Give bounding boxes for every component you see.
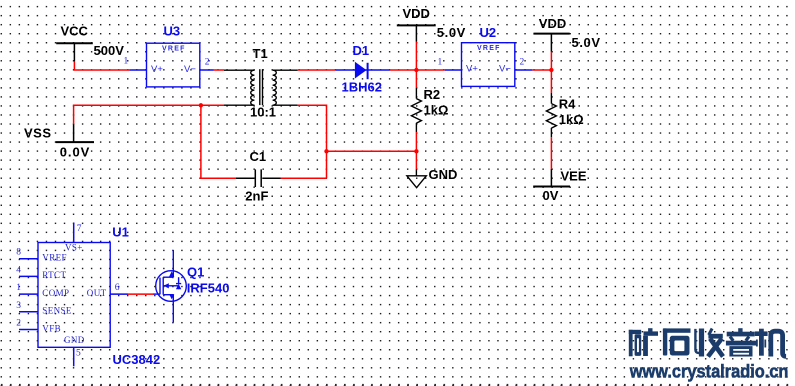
- svg-text:V+: V+: [466, 64, 478, 75]
- junction bottom rail / C1 branch: [199, 103, 203, 107]
- svg-text:VSS: VSS: [24, 125, 52, 140]
- IC U1 box: [38, 243, 110, 348]
- svg-text:1BH62: 1BH62: [342, 80, 382, 95]
- svg-text:U1: U1: [112, 225, 129, 240]
- svg-text:VDD: VDD: [403, 6, 430, 21]
- junction at VDD/R2 column: [414, 68, 418, 72]
- wire VCC to U3 pin1 (red): [74, 62, 129, 70]
- svg-text:U2: U2: [480, 25, 497, 40]
- U1 pin5 lead: [73, 347, 75, 366]
- svg-text:V−: V−: [184, 64, 196, 75]
- U1 pin4 stub: [19, 275, 38, 277]
- wire VEE lead black: [550, 169, 552, 187]
- transistor Q1: [153, 250, 186, 323]
- svg-text:2: 2: [16, 319, 21, 329]
- power VSS: [56, 141, 94, 143]
- svg-text:5.0V: 5.0V: [437, 25, 466, 40]
- wire VSS riser black: [73, 124, 75, 142]
- svg-text:RTCT: RTCT: [42, 270, 66, 280]
- power VEE: [533, 186, 570, 188]
- svg-text:COMP: COMP: [42, 288, 69, 298]
- char kuang: [629, 328, 658, 356]
- op U2 pin2 stub: [515, 69, 533, 71]
- svg-text:VEE: VEE: [561, 168, 587, 183]
- svg-text:U3: U3: [164, 23, 181, 38]
- wire T1 to D1 (red): [298, 69, 336, 71]
- wire VDD riser black: [415, 25, 417, 41]
- svg-text:UC3842: UC3842: [113, 352, 161, 367]
- wire U2 to VDD junction (red): [532, 69, 551, 71]
- wire R2 to GND (red): [415, 132, 417, 169]
- char shou: [695, 329, 723, 357]
- svg-text:R2: R2: [424, 87, 441, 102]
- svg-text:0.0V: 0.0V: [60, 144, 90, 159]
- svg-text:1kΩ: 1kΩ: [424, 103, 449, 118]
- wire VDD-R riser black: [550, 34, 552, 52]
- svg-text:500V: 500V: [94, 43, 125, 58]
- wire junction to R2 (red): [415, 70, 417, 88]
- svg-text:4: 4: [16, 265, 21, 275]
- diode D1: [336, 62, 390, 79]
- ground symbol: [407, 169, 426, 188]
- junction on C1 right branch: [324, 149, 328, 153]
- svg-text:SENSE: SENSE: [42, 306, 72, 316]
- svg-text:VDD: VDD: [539, 16, 566, 31]
- op U2 pin1 stub: [445, 69, 462, 71]
- char yin: [726, 328, 756, 356]
- svg-text:3: 3: [16, 301, 21, 311]
- op-amp U2 box: [462, 43, 515, 87]
- svg-text:VFB: VFB: [42, 323, 61, 333]
- svg-text:C1: C1: [250, 149, 267, 164]
- svg-text:OUT: OUT: [87, 288, 107, 298]
- junction at VDD-R/R4 column: [549, 68, 553, 72]
- svg-text:10:1: 10:1: [250, 105, 276, 120]
- svg-text:GND: GND: [64, 335, 85, 345]
- power VCC: [56, 42, 93, 44]
- U1 pin3 stub: [19, 311, 38, 313]
- capacitor C1: [236, 169, 281, 187]
- op-amp U3 box: [147, 43, 200, 87]
- wire VDD-R riser red: [550, 52, 552, 70]
- svg-text:R4: R4: [559, 97, 576, 112]
- svg-text:7: 7: [77, 224, 82, 234]
- wire C1 left branch (red): [201, 105, 236, 178]
- wire VDD riser red: [415, 42, 417, 71]
- wire tap C1 to R2 (red): [327, 150, 417, 152]
- junction R2/C1 tap: [414, 149, 418, 153]
- svg-text:T1: T1: [253, 46, 268, 61]
- wire VCC riser (black part): [73, 43, 75, 61]
- char shi: [663, 328, 691, 355]
- svg-text:GND: GND: [429, 167, 458, 182]
- U1 pin7 lead: [73, 223, 75, 243]
- svg-text:6: 6: [115, 283, 120, 293]
- U1 pin2 stub: [19, 329, 38, 331]
- svg-text:1: 1: [16, 283, 21, 293]
- U1 pin6 stub: [110, 293, 128, 295]
- svg-text:2: 2: [520, 57, 525, 67]
- power VDD (left): [397, 24, 436, 26]
- wire U3 to T1 (red): [214, 69, 225, 71]
- resistor R4: [546, 93, 556, 137]
- svg-text:D1: D1: [353, 43, 370, 58]
- svg-text:www.crystalradio.cn: www.crystalradio.cn: [629, 362, 789, 382]
- transformer T1: [224, 69, 298, 105]
- svg-text:5.0V: 5.0V: [572, 35, 601, 50]
- svg-text:0V: 0V: [543, 188, 559, 203]
- wire junction to R4 (red): [550, 70, 552, 93]
- svg-text:2nF: 2nF: [245, 188, 268, 203]
- svg-text:VS+: VS+: [65, 242, 83, 252]
- svg-text:5: 5: [76, 349, 81, 359]
- svg-text:2: 2: [205, 58, 210, 68]
- svg-text:VREF: VREF: [162, 46, 185, 53]
- svg-text:1kΩ: 1kΩ: [559, 112, 584, 127]
- resistor R2: [411, 88, 421, 132]
- wire D1 to junction (red): [390, 69, 445, 71]
- op U3 pin1 stub: [129, 69, 146, 71]
- grid bottom edge row: [1, 384, 788, 386]
- svg-text:IRF540: IRF540: [187, 281, 230, 296]
- Q1 arrows: [163, 271, 181, 299]
- watermark logo (Chinese characters drawn as paths): [629, 328, 786, 356]
- svg-text:VREF: VREF: [42, 253, 67, 263]
- svg-text:V+: V+: [151, 64, 163, 75]
- wire OUT to Q1 gate (red): [128, 293, 153, 295]
- U1 pin8 stub: [19, 258, 38, 260]
- svg-text:Q1: Q1: [187, 264, 204, 279]
- U1 pin1 stub: [19, 293, 38, 295]
- svg-text:1: 1: [124, 57, 129, 67]
- power VDD (right): [534, 33, 570, 35]
- svg-text:VREF: VREF: [477, 45, 500, 52]
- op U3 pin2 stub: [200, 69, 214, 71]
- wire T1 bottom-right to corner (red): [298, 105, 327, 178]
- wire R4 to VEE (red): [550, 137, 552, 169]
- wire VSS riser red + bottom rail: [74, 105, 224, 124]
- svg-text:V−: V−: [499, 64, 511, 75]
- svg-text:8: 8: [16, 248, 21, 258]
- svg-text:VCC: VCC: [61, 23, 89, 38]
- svg-text:1: 1: [438, 57, 443, 67]
- char ji: [755, 329, 786, 357]
- wire C1 right to corner (red): [281, 177, 327, 179]
